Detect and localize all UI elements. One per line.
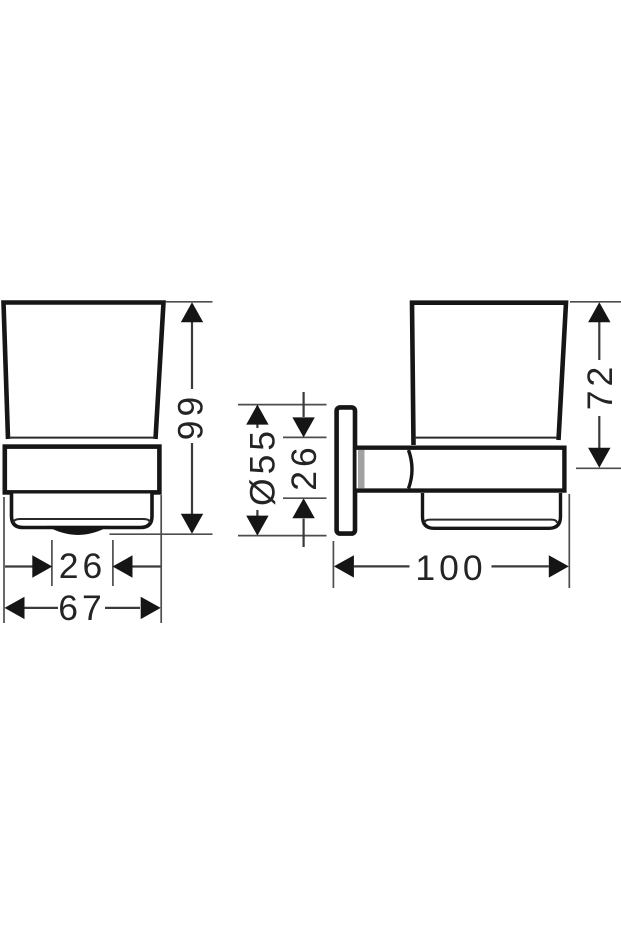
dimension 72: top arrow <box>588 302 610 322</box>
dimension 26 front: right extension line <box>112 540 114 586</box>
dimension 67: right arrow <box>141 597 161 619</box>
dimension 26 front: left extension line <box>51 540 53 586</box>
front view: lower shell inner lip line <box>14 519 151 523</box>
dimension Ø55: dimension line <box>256 406 258 534</box>
dimension 26 side: dimension line tails <box>303 392 305 547</box>
front view: holder ring band <box>5 447 160 493</box>
dimension 100: right extension line <box>568 494 570 588</box>
front view: holder lower shell <box>12 494 153 528</box>
dimension 67: left arrow <box>5 597 25 619</box>
dimension 99: bottom arrow <box>181 514 203 534</box>
dimension 100: dimension line <box>354 565 549 567</box>
dimension 99: top extension line <box>166 301 213 303</box>
dimension 99: bottom extension line <box>110 533 213 535</box>
dimension 72: top extension line <box>570 301 621 303</box>
dimension 67: left extension line <box>3 497 5 623</box>
front view: glass bottom bump (dark crescent) <box>47 526 110 535</box>
dimension Ø55: bottom arrow <box>246 516 268 536</box>
side view: glass/ring lip thin line <box>414 437 557 439</box>
dimension 26 side: lower arrow <box>292 498 314 518</box>
dimension 100: left arrow <box>334 555 354 577</box>
svg-text:67: 67 <box>58 588 106 628</box>
dimension 67: right extension line <box>160 495 162 623</box>
front view: glass bottom thin line <box>9 437 155 439</box>
dimension 26 front: right arrow <box>113 555 133 577</box>
side view: holder ring band and arm top/bottom <box>357 448 565 491</box>
dimension 26 front: left arrow <box>32 555 52 577</box>
svg-text:Ø55: Ø55 <box>243 427 283 506</box>
side view: holder lower shell <box>423 493 561 528</box>
dimension Ø55: bottom extension line <box>238 535 327 537</box>
side view: glass tumbler outline <box>412 303 566 445</box>
dimension 26 side: upper arrow <box>292 417 314 437</box>
dimension 72: dimension line <box>598 304 600 466</box>
dimension 26 side: bottom extension line <box>283 497 327 499</box>
svg-text:26: 26 <box>59 546 107 586</box>
svg-text:72: 72 <box>580 363 620 411</box>
dimension 26 side: top extension line <box>283 436 327 438</box>
svg-text:99: 99 <box>171 393 211 441</box>
dimension 99: top arrow <box>181 302 203 322</box>
dimension 26 front: dimension line tails <box>5 565 162 567</box>
dimension 72: bottom extension line <box>576 467 621 469</box>
side view: arm collar arc <box>409 450 413 489</box>
svg-text:26: 26 <box>284 443 324 491</box>
side view: wall plate (escutcheon) <box>337 407 355 533</box>
front view: glass tumbler outline <box>4 303 164 440</box>
svg-text:100: 100 <box>415 548 486 588</box>
dimension 100: right arrow <box>549 555 569 577</box>
side view: lower shell inner lip line <box>425 520 558 523</box>
side view: arm shading strip <box>358 450 365 489</box>
dimension 72: bottom arrow <box>588 448 610 468</box>
dimension 67: dimension line <box>25 607 141 609</box>
dimension Ø55: top arrow <box>246 405 268 425</box>
dimension Ø55: top extension line <box>238 404 327 406</box>
dimension 99: dimension line <box>191 304 193 532</box>
dimension 100: left extension line <box>332 541 334 588</box>
